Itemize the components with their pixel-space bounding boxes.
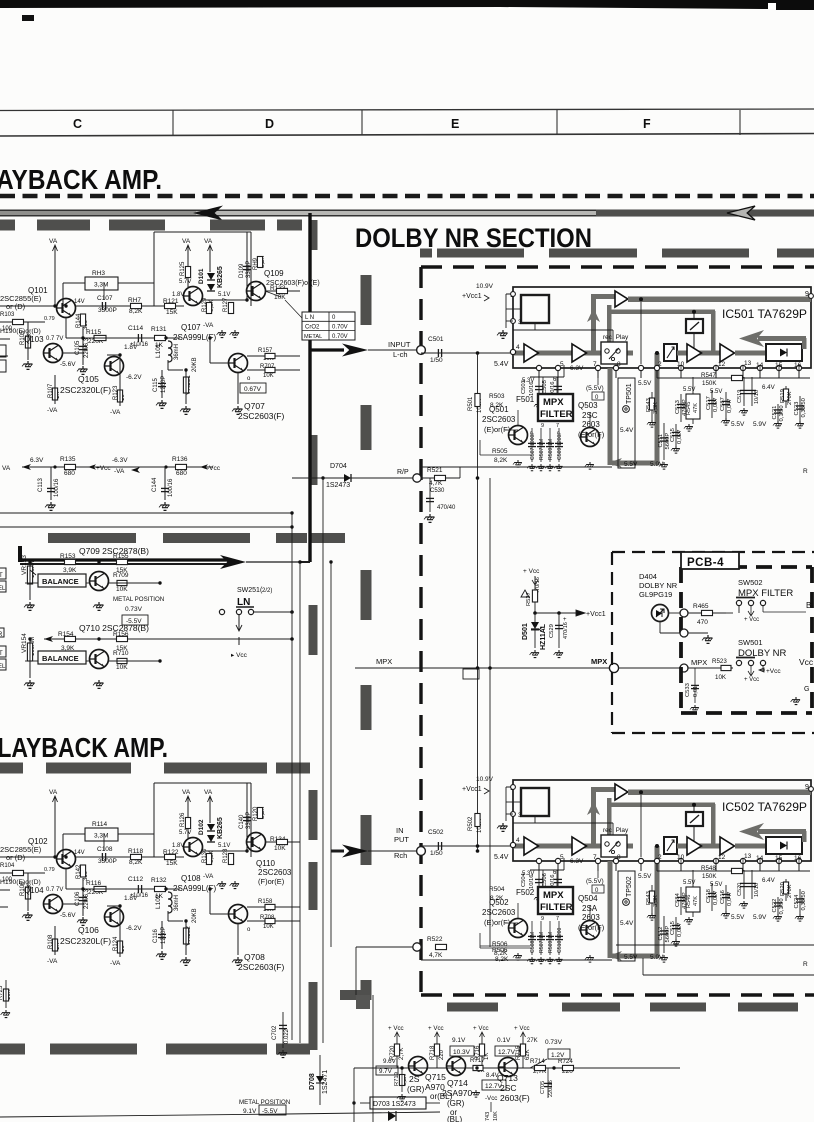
svg-text:METAL POSITION: METAL POSITION — [113, 596, 164, 603]
svg-text:INPUT: INPUT — [388, 340, 411, 349]
svg-text:C524: C524 — [794, 894, 800, 909]
svg-text:R503: R503 — [489, 393, 505, 400]
svg-text:H190(E)or(D): H190(E)or(D) — [0, 879, 41, 886]
svg-text:R135: R135 — [60, 456, 76, 463]
svg-text:Q107: Q107 — [181, 323, 201, 332]
svg-text:470/40: 470/40 — [437, 505, 456, 511]
svg-text:▸ Vcc: ▸ Vcc — [231, 652, 248, 659]
svg-text:+Vcc1: +Vcc1 — [462, 786, 482, 793]
svg-text:VA: VA — [204, 238, 213, 245]
svg-text:14V: 14V — [74, 850, 85, 856]
svg-text:G: G — [804, 686, 809, 693]
svg-text:Q105: Q105 — [78, 374, 99, 384]
svg-text:15K: 15K — [166, 309, 178, 316]
svg-text:MPX: MPX — [543, 397, 564, 408]
svg-text:(E)or(F): (E)or(F) — [484, 918, 511, 927]
svg-text:-VA: -VA — [47, 407, 58, 414]
svg-text:10/16: 10/16 — [133, 342, 149, 348]
svg-text:TP502: TP502 — [626, 876, 633, 897]
svg-text:(GR): (GR) — [407, 1085, 425, 1094]
svg-text:+ Vcc: + Vcc — [744, 677, 759, 683]
svg-text:R505: R505 — [492, 448, 508, 455]
svg-text:TP501: TP501 — [626, 383, 633, 404]
svg-text:Rch: Rch — [394, 851, 407, 860]
svg-text:-6.3V: -6.3V — [112, 457, 128, 464]
svg-text:0.7 7V: 0.7 7V — [46, 887, 63, 893]
svg-text:10/16: 10/16 — [754, 883, 760, 897]
svg-text:R545: R545 — [686, 402, 692, 415]
svg-text:H190(E)or(D): H190(E)or(D) — [0, 328, 41, 335]
svg-text:2: 2 — [658, 361, 662, 368]
svg-text:R: R — [803, 468, 808, 475]
svg-text:C115: C115 — [153, 377, 159, 392]
svg-text:5.5V: 5.5V — [624, 954, 638, 961]
svg-text:5.5V: 5.5V — [710, 389, 722, 395]
svg-text:5.5V: 5.5V — [624, 461, 638, 468]
svg-text:rec. Play: rec. Play — [603, 827, 629, 834]
svg-text:2: 2 — [658, 854, 662, 861]
svg-text:9.7V: 9.7V — [379, 1068, 393, 1075]
svg-text:-5.6V: -5.6V — [60, 361, 76, 368]
svg-text:R710: R710 — [113, 650, 129, 657]
svg-text:C521: C521 — [772, 406, 778, 420]
svg-text:-VA: -VA — [110, 409, 121, 416]
svg-text:220/6.3: 220/6.3 — [84, 337, 90, 358]
svg-text:DOLBY NR: DOLBY NR — [639, 581, 678, 590]
svg-text:3,9K: 3,9K — [61, 645, 75, 652]
svg-text:MPX: MPX — [543, 890, 564, 901]
svg-text:R520: R520 — [780, 882, 786, 896]
svg-text:0.67V: 0.67V — [244, 386, 262, 393]
svg-text:R509 1M: R509 1M — [548, 932, 554, 953]
svg-text:SW251(: SW251( — [237, 587, 263, 594]
svg-text:3,3K: 3,3K — [653, 402, 659, 414]
svg-text:C511: C511 — [658, 434, 664, 447]
svg-text:-Vcc: -Vcc — [207, 465, 221, 472]
svg-text:+ Vcc: + Vcc — [428, 1025, 444, 1032]
svg-text:5.5V: 5.5V — [683, 387, 695, 393]
svg-text:C108: C108 — [97, 846, 113, 853]
svg-text:D704: D704 — [330, 463, 347, 470]
svg-text:680: 680 — [64, 470, 75, 477]
svg-text:D708: D708 — [309, 1073, 316, 1090]
svg-text:2603(F): 2603(F) — [500, 1093, 530, 1103]
svg-text:B: B — [806, 601, 811, 610]
svg-text:470: 470 — [697, 619, 708, 626]
svg-text:R502: R502 — [468, 816, 474, 831]
svg-text:Q715: Q715 — [425, 1072, 446, 1082]
svg-text:Q707: Q707 — [244, 401, 265, 411]
svg-text:0.70V: 0.70V — [332, 325, 348, 331]
svg-text:C515: C515 — [670, 921, 676, 935]
svg-text:(E)or(F): (E)or(F) — [484, 425, 511, 434]
svg-text:5.9V: 5.9V — [753, 914, 767, 921]
svg-text:IC501 TA7629P: IC501 TA7629P — [722, 307, 807, 321]
svg-text:C515: C515 — [670, 428, 676, 442]
svg-text:MPX: MPX — [591, 657, 607, 666]
svg-text:T: T — [0, 573, 3, 579]
svg-text:D102: D102 — [198, 819, 205, 835]
svg-text:2SA970: 2SA970 — [442, 1088, 473, 1098]
svg-text:L N: L N — [305, 315, 314, 321]
svg-text:C702: C702 — [272, 1025, 278, 1040]
svg-text:VA: VA — [182, 238, 191, 245]
svg-text:270K: 270K — [787, 391, 793, 405]
svg-text:R136: R136 — [172, 456, 188, 463]
svg-text:R546: R546 — [686, 895, 692, 908]
svg-text:R/P: R/P — [397, 469, 409, 476]
svg-text:R717: R717 — [470, 1057, 485, 1064]
svg-text:SW502: SW502 — [738, 578, 763, 587]
svg-text:C522: C522 — [772, 899, 778, 913]
svg-text:3300P: 3300P — [98, 858, 117, 865]
svg-text:BALANCE: BALANCE — [42, 654, 79, 663]
svg-text:0,047: 0,047 — [727, 398, 733, 413]
svg-text:C587: C587 — [720, 397, 726, 411]
svg-text:Q504: Q504 — [578, 894, 598, 903]
svg-text:C513: C513 — [675, 400, 681, 414]
svg-text:Q109: Q109 — [264, 269, 284, 278]
svg-text:F501: F501 — [516, 395, 535, 404]
svg-text:FILTER: FILTER — [540, 902, 573, 913]
svg-text:R523: R523 — [712, 658, 727, 665]
svg-text:KB265: KB265 — [217, 266, 224, 288]
svg-text:T: T — [0, 651, 3, 657]
svg-text:5.9V: 5.9V — [753, 421, 767, 428]
svg-text:2SC2603: 2SC2603 — [482, 415, 516, 424]
svg-text:Q708: Q708 — [244, 952, 265, 962]
svg-text:5: 5 — [560, 361, 564, 368]
svg-text:8: 8 — [617, 854, 621, 861]
svg-text:150K: 150K — [702, 873, 717, 880]
svg-text:100/16: 100/16 — [54, 478, 60, 497]
svg-text:(GR): (GR) — [447, 1099, 465, 1108]
svg-text:F502: F502 — [516, 888, 535, 897]
svg-text:rec. Play: rec. Play — [603, 334, 629, 341]
svg-text:+ Vcc: + Vcc — [388, 1025, 404, 1032]
svg-text:10/16: 10/16 — [529, 874, 535, 889]
svg-text:4: 4 — [516, 837, 520, 844]
svg-text:GL9PG19: GL9PG19 — [639, 590, 672, 599]
svg-text:4: 4 — [516, 344, 520, 351]
svg-text:+ Vcc: + Vcc — [523, 568, 540, 575]
svg-text:EL: EL — [0, 586, 6, 592]
svg-text:C584: C584 — [675, 892, 681, 907]
svg-text:0,1/50: 0,1/50 — [779, 405, 785, 421]
svg-text:-VA: -VA — [203, 873, 214, 880]
svg-text:0.022: 0.022 — [284, 1028, 290, 1044]
svg-text:C517: C517 — [706, 396, 712, 410]
svg-text:VA: VA — [49, 789, 58, 796]
svg-text:100/16: 100/16 — [168, 478, 174, 497]
svg-text:R724: R724 — [558, 1058, 573, 1065]
svg-text:C: C — [73, 117, 82, 131]
svg-text:20KB: 20KB — [192, 908, 198, 923]
svg-text:5.1V: 5.1V — [218, 292, 230, 298]
svg-text:R103: R103 — [0, 312, 15, 318]
svg-text:5.5V: 5.5V — [731, 421, 745, 428]
svg-text:10K: 10K — [274, 845, 286, 852]
svg-text:F: F — [643, 117, 651, 131]
svg-text:3300P: 3300P — [98, 307, 117, 314]
svg-text:R: R — [803, 961, 808, 968]
svg-text:12.7V: 12.7V — [498, 1049, 516, 1056]
svg-text:0.70V: 0.70V — [332, 334, 348, 340]
svg-text:47K: 47K — [693, 896, 699, 906]
svg-text:10K: 10K — [263, 924, 274, 930]
svg-text:IC502 TA7629P: IC502 TA7629P — [722, 800, 807, 814]
svg-text:220/16: 220/16 — [548, 1080, 554, 1097]
svg-text:Q106: Q106 — [78, 925, 99, 935]
svg-text:+Vcc1: +Vcc1 — [462, 293, 482, 300]
svg-text:7: 7 — [593, 361, 597, 368]
svg-text:10.9V: 10.9V — [476, 283, 494, 290]
svg-text:-VA: -VA — [110, 960, 121, 967]
svg-text:R131: R131 — [151, 326, 167, 333]
svg-text:C508 1M: C508 1M — [530, 932, 536, 953]
svg-text:14V: 14V — [74, 299, 85, 305]
svg-text:0.79: 0.79 — [44, 867, 55, 873]
svg-text:2S: 2S — [409, 1074, 420, 1084]
svg-text:6.3V: 6.3V — [570, 858, 584, 865]
svg-text:RH3: RH3 — [92, 270, 105, 277]
svg-text:20KB: 20KB — [192, 357, 198, 372]
svg-text:2SC2603(F): 2SC2603(F) — [238, 962, 284, 972]
svg-text:2SC2320L(F): 2SC2320L(F) — [60, 936, 111, 946]
svg-text:VA: VA — [49, 238, 58, 245]
svg-text:C504: C504 — [521, 872, 527, 887]
svg-text:0,33/50: 0,33/50 — [801, 891, 807, 910]
svg-text:5.7V: 5.7V — [179, 279, 191, 285]
svg-text:0,027: 0,027 — [713, 397, 719, 412]
svg-text:C114: C114 — [128, 325, 143, 332]
svg-text:CrO2: CrO2 — [305, 325, 320, 331]
svg-text:680: 680 — [176, 470, 187, 477]
svg-text:5.7V: 5.7V — [179, 830, 191, 836]
svg-text:10K: 10K — [116, 586, 128, 593]
svg-text:0.7 7V: 0.7 7V — [46, 336, 63, 342]
svg-text:8,2K: 8,2K — [490, 895, 504, 902]
svg-text:47K: 47K — [693, 403, 699, 413]
svg-text:(5.5V): (5.5V) — [586, 385, 604, 392]
svg-text:36mH: 36mH — [174, 895, 180, 911]
svg-text:L102: L102 — [155, 894, 162, 909]
svg-text:C116: C116 — [153, 928, 159, 943]
svg-text:2SC2603(F): 2SC2603(F) — [238, 411, 284, 421]
svg-text:+Vcc1: +Vcc1 — [586, 611, 606, 618]
svg-text:5.9V: 5.9V — [650, 461, 664, 468]
svg-text:3,3M: 3,3M — [94, 282, 108, 289]
svg-text:0.1V: 0.1V — [497, 1037, 511, 1044]
svg-text:7: 7 — [556, 916, 559, 922]
svg-text:R519: R519 — [780, 389, 786, 403]
svg-text:Q104: Q104 — [24, 886, 44, 895]
svg-text:D109: D109 — [239, 263, 245, 278]
svg-text:Q503: Q503 — [578, 401, 598, 410]
svg-text:VA: VA — [182, 789, 191, 796]
svg-text:Q713: Q713 — [497, 1073, 518, 1083]
svg-text:2SC2320L(F): 2SC2320L(F) — [60, 385, 111, 395]
svg-text:10.9V: 10.9V — [476, 776, 494, 783]
svg-text:C509 1200P: C509 1200P — [557, 431, 563, 460]
svg-text:5.4V: 5.4V — [620, 920, 634, 927]
svg-text:3,3M: 3,3M — [94, 833, 108, 840]
svg-text:+: + — [563, 617, 567, 623]
svg-text:220/6.3: 220/6.3 — [84, 888, 90, 909]
svg-text:0.73V: 0.73V — [545, 1039, 563, 1046]
svg-text:R114: R114 — [92, 821, 107, 828]
svg-text:6.4V: 6.4V — [762, 384, 776, 391]
svg-text:C523: C523 — [794, 402, 800, 416]
svg-text:Vcc: Vcc — [799, 657, 814, 667]
svg-text:SW501: SW501 — [738, 638, 763, 647]
svg-text:5.4V: 5.4V — [494, 361, 509, 368]
svg-text:2/2): 2/2) — [262, 588, 272, 594]
svg-text:C518: C518 — [706, 889, 712, 903]
svg-text:2SC: 2SC — [500, 1083, 517, 1093]
svg-text:7: 7 — [556, 423, 559, 429]
svg-text:R506: R506 — [492, 947, 508, 954]
svg-text:1.8V: 1.8V — [172, 292, 184, 298]
svg-text:+ Vcc: + Vcc — [744, 617, 759, 623]
svg-text:1/50: 1/50 — [430, 850, 443, 857]
svg-text:R507 1M: R507 1M — [539, 932, 545, 953]
svg-text:10K: 10K — [263, 373, 274, 379]
svg-text:0,1/50: 0,1/50 — [779, 898, 785, 914]
svg-text:PCB-4: PCB-4 — [687, 557, 724, 569]
svg-text:VA: VA — [204, 789, 213, 796]
svg-text:-6.2V: -6.2V — [126, 374, 142, 381]
svg-text:PUT: PUT — [394, 835, 409, 844]
svg-text:1S2473: 1S2473 — [326, 482, 350, 489]
svg-text:12: 12 — [718, 854, 726, 861]
svg-text:27K: 27K — [527, 1038, 538, 1044]
svg-text:R104: R104 — [0, 863, 15, 869]
svg-text:C502: C502 — [428, 829, 444, 836]
svg-text:5.5V: 5.5V — [710, 882, 722, 888]
svg-text:36mH: 36mH — [174, 344, 180, 360]
svg-text:+Vcc: +Vcc — [96, 465, 111, 472]
svg-text:R714: R714 — [530, 1058, 545, 1065]
svg-text:R543: R543 — [646, 891, 652, 905]
svg-text:PLAYBACK AMP.: PLAYBACK AMP. — [0, 732, 168, 763]
svg-text:-6.2V: -6.2V — [126, 925, 142, 932]
svg-text:15K: 15K — [166, 860, 178, 867]
svg-text:2SC2603: 2SC2603 — [482, 908, 516, 917]
svg-text:R521: R521 — [427, 467, 443, 474]
svg-text:6.3V: 6.3V — [570, 365, 584, 372]
svg-text:C140: C140 — [239, 814, 245, 829]
svg-text:12: 12 — [718, 361, 726, 368]
svg-text:5.5V: 5.5V — [731, 914, 745, 921]
svg-text:3,9K: 3,9K — [63, 567, 77, 574]
svg-text:470/16: 470/16 — [563, 622, 569, 639]
svg-text:-Vcc: -Vcc — [485, 1095, 497, 1102]
svg-text:or (D): or (D) — [6, 853, 26, 862]
svg-text:10K: 10K — [493, 1111, 499, 1121]
svg-text:C516: C516 — [720, 890, 726, 904]
svg-text:0,01: 0,01 — [693, 686, 699, 697]
svg-text:-5.6V: -5.6V — [60, 912, 76, 919]
svg-text:8,2K: 8,2K — [494, 457, 508, 464]
svg-text:D703 1S2473: D703 1S2473 — [373, 1101, 416, 1108]
svg-text:3,3K: 3,3K — [653, 895, 659, 907]
svg-text:0,027: 0,027 — [713, 890, 719, 905]
svg-text:5.5V: 5.5V — [638, 380, 652, 387]
svg-text:VA: VA — [2, 465, 11, 472]
svg-text:6.4V: 6.4V — [762, 877, 776, 884]
svg-text:5.9V: 5.9V — [650, 954, 664, 961]
svg-text:R709: R709 — [113, 572, 129, 579]
svg-text:C113: C113 — [38, 477, 44, 492]
svg-text:MPX: MPX — [376, 657, 392, 666]
svg-text:10K: 10K — [715, 674, 727, 681]
svg-text:C530: C530 — [430, 488, 445, 494]
svg-text:1.8V: 1.8V — [172, 843, 184, 849]
svg-text:0,047: 0,047 — [727, 891, 733, 906]
svg-text:D404: D404 — [639, 572, 657, 581]
svg-text:C529: C529 — [549, 624, 555, 638]
svg-text:1S2471: 1S2471 — [322, 1070, 329, 1094]
svg-text:10K: 10K — [116, 664, 128, 671]
svg-text:9: 9 — [541, 423, 544, 429]
svg-text:0,33/50: 0,33/50 — [801, 398, 807, 417]
svg-text:10.3V: 10.3V — [453, 1049, 471, 1056]
svg-text:R509 1M: R509 1M — [548, 439, 554, 460]
svg-text:+ Vcc: + Vcc — [473, 1025, 489, 1032]
svg-text:9: 9 — [541, 916, 544, 922]
svg-text:C144: C144 — [152, 477, 158, 492]
svg-text:C520: C520 — [737, 883, 743, 896]
svg-text:C512: C512 — [658, 927, 664, 941]
svg-text:6.3V: 6.3V — [30, 457, 44, 464]
svg-text:L-ch: L-ch — [393, 350, 408, 359]
svg-text:5.4V: 5.4V — [620, 427, 634, 434]
svg-text:8,2K: 8,2K — [495, 956, 509, 963]
svg-text:R465: R465 — [693, 603, 709, 610]
svg-text:R507 1M: R507 1M — [539, 439, 545, 460]
svg-text:EL: EL — [0, 664, 6, 670]
svg-text:Q108: Q108 — [181, 874, 201, 883]
svg-text:IN: IN — [396, 826, 404, 835]
svg-text:R527: R527 — [526, 592, 532, 606]
svg-text:13: 13 — [744, 360, 752, 367]
svg-text:(5.5V): (5.5V) — [586, 878, 604, 885]
svg-text:Q110: Q110 — [256, 859, 276, 868]
svg-text:D: D — [265, 117, 274, 131]
svg-text:5.5V: 5.5V — [638, 873, 652, 880]
svg-text:Q103: Q103 — [24, 335, 44, 344]
svg-text:+Vcc: +Vcc — [766, 668, 781, 675]
svg-text:10/16: 10/16 — [754, 390, 760, 404]
svg-text:HZ11AL: HZ11AL — [540, 623, 547, 650]
svg-text:-VA: -VA — [47, 958, 58, 965]
svg-text:C503: C503 — [521, 380, 527, 394]
svg-text:METAL: METAL — [304, 334, 322, 340]
svg-text:743: 743 — [485, 1112, 491, 1121]
svg-text:13: 13 — [744, 853, 752, 860]
svg-text:-VA: -VA — [114, 468, 125, 475]
svg-text:5.5V: 5.5V — [683, 880, 695, 886]
svg-text:(F)or(E): (F)or(E) — [258, 877, 285, 886]
svg-text:C112: C112 — [128, 876, 143, 883]
svg-text:0,027: 0,027 — [677, 922, 683, 937]
svg-text:MPX: MPX — [691, 658, 707, 667]
svg-text:8: 8 — [617, 361, 621, 368]
svg-text:0.73V: 0.73V — [125, 606, 143, 613]
svg-text:8,2K: 8,2K — [490, 402, 504, 409]
svg-text:0,027: 0,027 — [677, 429, 683, 444]
